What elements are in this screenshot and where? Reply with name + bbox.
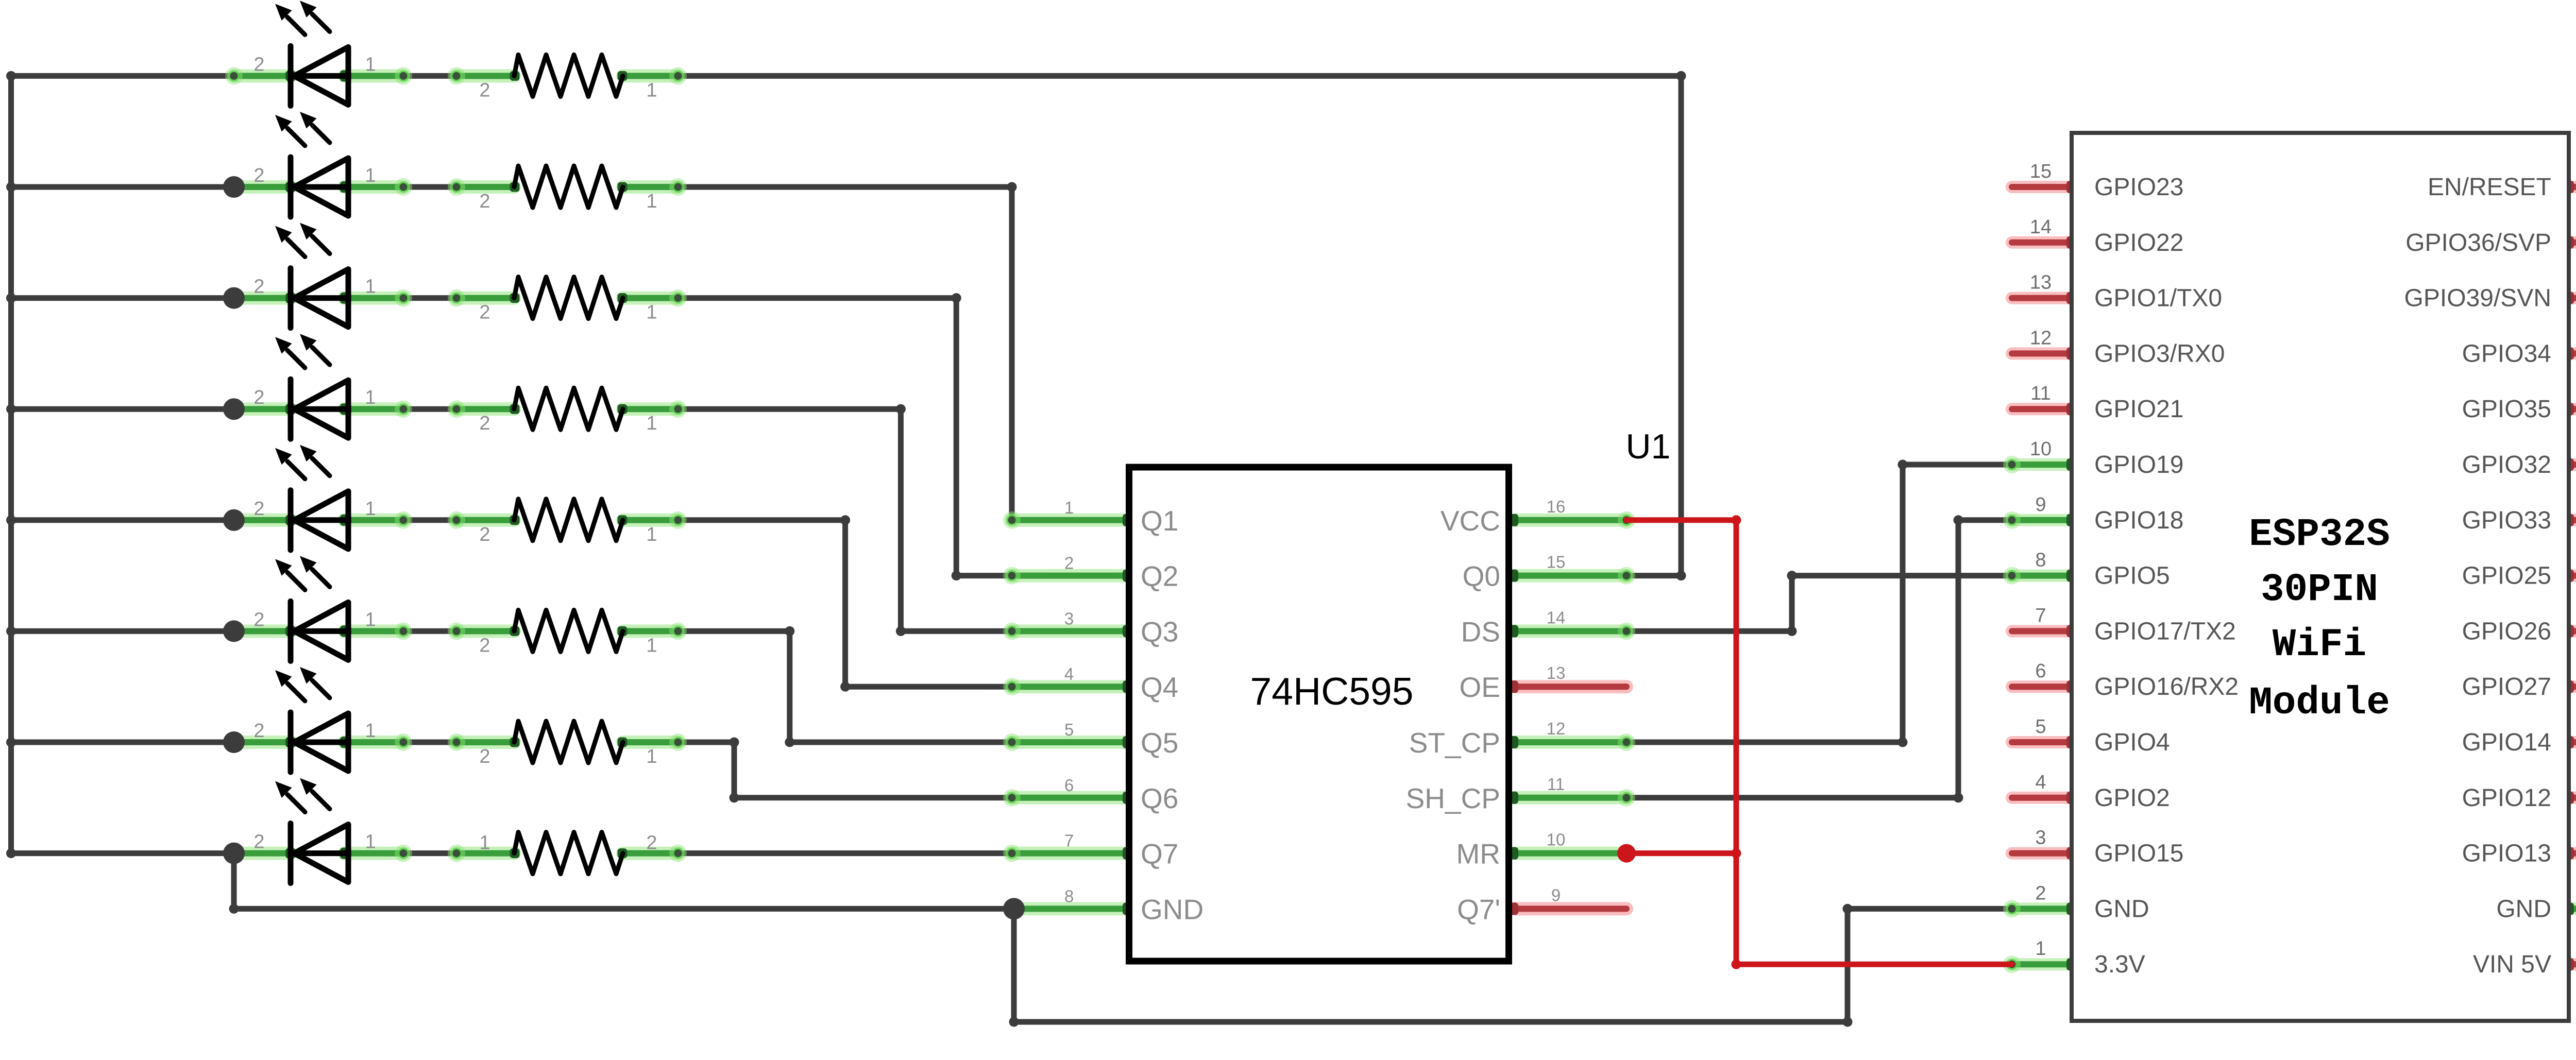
U1 right pin lead Q7' (unconnected, red): [1515, 902, 1626, 915]
U1 pin label Q4 (pin 4): [1064, 664, 1179, 703]
resistor R6 pin labels: [479, 635, 657, 656]
ESP32 pin label GPIO35 (pin 20): [2462, 383, 2576, 423]
svg-text:7: 7: [2035, 605, 2046, 626]
svg-text:16: 16: [1547, 497, 1566, 516]
svg-text:2: 2: [253, 165, 264, 186]
svg-text:2: 2: [253, 498, 264, 520]
U1 right pin lead SH_CP: [1515, 791, 1626, 805]
resistor R2 pin 2 lead: [456, 180, 514, 194]
svg-text:2: 2: [479, 191, 490, 212]
svg-text:6: 6: [2035, 660, 2046, 682]
U1 pin label Q5 (pin 5): [1064, 720, 1179, 759]
LED D6 pin 2 lead (green highlighted): [234, 624, 291, 638]
resistor R6 pin 2 lead: [456, 624, 514, 638]
resistor R3 pin 2 lead: [456, 292, 514, 305]
LED D3: [275, 223, 348, 328]
U1 right pin lead Q0: [1515, 569, 1626, 583]
svg-text:Q7: Q7: [1141, 838, 1178, 870]
svg-text:8: 8: [1064, 886, 1074, 905]
ESP32 left pin stub GPIO18 (connected): [2012, 514, 2072, 526]
svg-text:GPIO19: GPIO19: [2094, 451, 2183, 478]
wire: LED D8 pin 1 to resistor R8 pin 2: [403, 850, 456, 856]
wire: VCC red from U1 VCC to vertical: [1626, 517, 1736, 523]
ESP32 pin label GPIO22 (pin 14): [2030, 216, 2184, 257]
svg-text:15: 15: [1547, 553, 1566, 572]
svg-text:2: 2: [479, 302, 490, 323]
ESP32 right pin stub GPIO33 (unconnected, red): [2569, 514, 2576, 526]
resistor R3 pin 1 lead: [623, 292, 678, 305]
ESP32 pin label GND (pin 2): [2035, 882, 2149, 922]
LED D4: [275, 334, 348, 439]
wire: bus to LED D7 pin 2: [11, 740, 234, 745]
U1 left pin lead Q7: [1012, 847, 1126, 860]
LED D1 pin 1 lead (green highlighted): [344, 69, 403, 82]
svg-text:1: 1: [365, 498, 376, 520]
terminal points (green rings): [225, 67, 2576, 973]
ESP32 right pin stub GPIO13 (unconnected, red): [2569, 847, 2576, 860]
svg-text:1: 1: [646, 746, 657, 767]
ESP32 pin label GPIO21 (pin 11): [2030, 383, 2183, 423]
LED D7: [275, 667, 348, 772]
U1 right pin lead VCC: [1515, 514, 1626, 527]
ESP32 pin label GPIO32 (pin 21): [2462, 438, 2576, 478]
svg-text:11: 11: [1547, 775, 1565, 794]
svg-text:VCC: VCC: [1440, 505, 1500, 537]
ESP32 pin label GPIO25 (pin 23): [2462, 550, 2576, 590]
svg-text:6: 6: [1064, 776, 1074, 795]
svg-text:1: 1: [646, 191, 657, 212]
ESP32 left pin stub GPIO22 (unconnected, red): [2012, 236, 2072, 249]
junction dot: LED D2..D8 cathode junctions: [223, 176, 245, 864]
ESP32 left pin stub GPIO15 (unconnected, red): [2012, 847, 2072, 860]
resistor R5 pin 2 lead: [456, 514, 514, 527]
LED D4 pin 1 lead (green highlighted): [344, 402, 403, 416]
svg-text:30PIN: 30PIN: [2261, 568, 2378, 612]
svg-text:GPIO34: GPIO34: [2462, 340, 2551, 367]
U1 left pin lead Q2: [1012, 569, 1126, 583]
svg-text:1: 1: [2035, 938, 2046, 960]
svg-text:ST_CP: ST_CP: [1409, 727, 1500, 759]
svg-text:2: 2: [253, 276, 264, 298]
svg-text:1: 1: [365, 720, 376, 742]
svg-text:2: 2: [1064, 554, 1074, 573]
wire: bus to LED D5 pin 2: [11, 517, 234, 523]
ESP32 right pin stub EN/RESET (unconnected, red): [2569, 181, 2576, 193]
ESP32 pin label GND (pin 29): [2496, 882, 2576, 922]
wire: bus to LED D2 pin 2: [11, 184, 234, 190]
resistor R1 pin labels: [479, 79, 657, 101]
resistor R8 pin 1 lead: [623, 847, 678, 860]
resistor R4: [514, 388, 623, 430]
ESP32 pin label GPIO12 (pin 27): [2462, 772, 2576, 812]
resistor R7: [514, 721, 623, 763]
svg-text:Q4: Q4: [1141, 671, 1178, 703]
wire: LED D4 pin 1 to resistor R4 pin 2: [403, 406, 456, 412]
wire: LED D3 pin 1 to resistor R3 pin 2: [403, 295, 456, 301]
ESP32 left pin stub GPIO4 (unconnected, red): [2012, 736, 2072, 748]
resistor R4 pin 1 lead: [623, 402, 678, 416]
wire: GND net, to ESP32 GND pin 2: [1848, 906, 2012, 912]
resistor R3 pin labels: [479, 302, 657, 323]
ESP32 right pin stub GPIO39/SVN (unconnected, red): [2569, 292, 2576, 304]
svg-text:11: 11: [2030, 383, 2050, 404]
LED D8 pin 1 lead (green highlighted): [344, 847, 403, 860]
ESP32 pin label GPIO26 (pin 24): [2462, 605, 2576, 645]
ESP32 right pin stub GPIO25 (unconnected, red): [2569, 570, 2576, 582]
svg-text:GND: GND: [1141, 893, 1204, 925]
ESP32 pin label EN/RESET (pin 16): [2428, 161, 2576, 201]
svg-text:2: 2: [646, 832, 657, 854]
U1 pin label Q3 (pin 3): [1064, 609, 1179, 647]
U1 pin label Q7' (pin 9): [1457, 885, 1561, 925]
svg-text:GPIO22: GPIO22: [2094, 229, 2183, 257]
U1 left pin lead Q4: [1012, 680, 1126, 693]
U1 right pin lead ST_CP: [1515, 736, 1626, 749]
ESP32 left pin stub GPIO3/RX0 (unconnected, red): [2012, 347, 2072, 360]
wire: red vertical VCC to 3.3V: [1734, 520, 1739, 964]
svg-text:3: 3: [2035, 827, 2046, 849]
U1 pin label Q6 (pin 6): [1064, 776, 1179, 814]
svg-text:12: 12: [2030, 327, 2052, 349]
wire: R2 to U1 Q1: [678, 184, 1012, 190]
svg-text:GPIO12: GPIO12: [2462, 784, 2551, 812]
resistor R1 pin 2 lead: [456, 69, 514, 82]
ESP32 pin label GPIO23 (pin 15): [2030, 161, 2184, 201]
svg-text:Q0: Q0: [1463, 560, 1500, 592]
wire: LED D2 pin 1 to resistor R2 pin 2: [403, 184, 456, 190]
LED D1 pin labels: [253, 54, 376, 75]
svg-text:4: 4: [1064, 664, 1074, 683]
svg-text:GND: GND: [2496, 895, 2551, 922]
ESP32 pin label GPIO2 (pin 4): [2035, 772, 2170, 812]
LED D5 pin 2 lead (green highlighted): [234, 514, 291, 527]
svg-text:GPIO21: GPIO21: [2094, 396, 2183, 423]
svg-text:GPIO13: GPIO13: [2462, 840, 2551, 867]
svg-text:GPIO1/TX0: GPIO1/TX0: [2094, 285, 2222, 312]
svg-text:12: 12: [1547, 719, 1566, 738]
resistor R8 pin 2 lead: [456, 847, 514, 860]
svg-text:MR: MR: [1456, 838, 1500, 870]
svg-text:1: 1: [646, 413, 657, 434]
LED D2: [275, 112, 348, 217]
resistor R4 pin 2 lead: [456, 402, 514, 416]
LED D7 pin 2 lead (green highlighted): [234, 736, 291, 749]
U1 left pin lead Q6: [1012, 791, 1126, 805]
resistor R1: [514, 55, 623, 96]
LED D4 pin 2 lead (green highlighted): [234, 402, 291, 416]
wire: R7 to U1 Q6: [678, 740, 734, 745]
svg-text:Q3: Q3: [1141, 616, 1178, 647]
ESP32 pin label GPIO5 (pin 8): [2035, 550, 2170, 590]
ESP32 right pin stub GPIO32 (unconnected, red): [2569, 458, 2576, 471]
wire: U1 SH_CP to ESP32 GPIO18: [1626, 795, 1958, 800]
wire: R4 to U1 Q3: [678, 406, 901, 412]
LED D5: [275, 445, 348, 550]
ESP32 right pin stub GPIO26 (unconnected, red): [2569, 625, 2576, 637]
ESP32 left pin stub GPIO23 (unconnected, red): [2012, 181, 2072, 193]
LED D3 pin labels: [253, 276, 376, 298]
svg-text:SH_CP: SH_CP: [1406, 782, 1500, 814]
svg-text:1: 1: [365, 165, 376, 186]
ESP32 pin label GPIO18 (pin 9): [2035, 494, 2183, 534]
svg-text:2: 2: [479, 79, 490, 101]
ESP32 left pin stub GPIO16/RX2 (unconnected, red): [2012, 680, 2072, 693]
ESP32 left pin stub GPIO17/TX2 (unconnected, red): [2012, 625, 2072, 637]
ESP32 pin label GPIO19 (pin 10): [2030, 438, 2184, 478]
svg-text:2: 2: [479, 413, 490, 434]
LED D3 pin 2 lead (green highlighted): [234, 292, 291, 305]
resistor R7 pin 2 lead: [456, 736, 514, 749]
wire: LED D7 pin 1 to resistor R7 pin 2: [403, 740, 456, 745]
svg-text:1: 1: [646, 79, 657, 101]
resistor R5: [514, 499, 623, 541]
LED D2 pin 1 lead (green highlighted): [344, 180, 403, 194]
LED D5 pin 1 lead (green highlighted): [344, 514, 403, 527]
U1 pin label VCC (pin 16): [1440, 497, 1565, 537]
op-amp U1 74HC595 IC body: [1129, 467, 1509, 961]
U1 pin label ST_CP (pin 12): [1409, 719, 1566, 759]
ESP32 left pin stub GPIO1/TX0 (unconnected, red): [2012, 292, 2072, 304]
resistor R5 pin labels: [479, 524, 657, 545]
resistor R6: [514, 610, 623, 652]
wire: bus to LED D4 pin 2: [11, 406, 234, 412]
svg-text:2: 2: [253, 54, 264, 75]
svg-text:14: 14: [2030, 216, 2052, 238]
ESP32 pin label GPIO15 (pin 3): [2035, 827, 2183, 867]
U1 pin label Q2 (pin 2): [1064, 554, 1179, 592]
svg-text:GPIO26: GPIO26: [2462, 618, 2551, 645]
svg-text:GPIO25: GPIO25: [2462, 562, 2551, 590]
svg-text:GPIO23: GPIO23: [2094, 174, 2183, 201]
ESP32 pin label GPIO4 (pin 5): [2035, 716, 2170, 756]
svg-text:Module: Module: [2249, 681, 2390, 725]
LED D4 pin labels: [253, 387, 376, 408]
LED D5 pin labels: [253, 498, 376, 520]
U1 pin label OE (pin 13): [1460, 663, 1566, 703]
wire: R5 to U1 Q4: [678, 517, 845, 523]
U1 pin label MR (pin 10): [1456, 830, 1565, 870]
U1 pin label GND (pin 8): [1064, 886, 1204, 925]
svg-text:GPIO16/RX2: GPIO16/RX2: [2094, 673, 2239, 700]
LED D2 pin 2 lead (green highlighted): [234, 180, 291, 194]
svg-text:5: 5: [2035, 716, 2046, 738]
svg-text:GPIO4: GPIO4: [2094, 729, 2170, 756]
LED D7 pin 1 lead (green highlighted): [344, 736, 403, 749]
resistor R2 pin 1 lead: [623, 180, 678, 194]
ESP32 pin label GPIO14 (pin 26): [2462, 716, 2576, 756]
pin dark-green caps at component bodies: [285, 70, 2574, 970]
svg-text:9: 9: [1551, 885, 1561, 904]
svg-text:1: 1: [365, 276, 376, 298]
svg-text:DS: DS: [1461, 616, 1500, 647]
svg-text:Q7': Q7': [1457, 893, 1500, 925]
wire: bus to LED D1 pin 2: [11, 73, 234, 79]
svg-text:3: 3: [1064, 609, 1074, 628]
wire: LED D5 pin 1 to resistor R5 pin 2: [403, 517, 456, 523]
svg-text:2: 2: [253, 831, 264, 853]
svg-text:Q1: Q1: [1141, 505, 1178, 537]
svg-text:1: 1: [1064, 498, 1074, 517]
wire: R1 to U1 Q0 (top run, down at right): [678, 73, 1681, 79]
resistor R2 pin labels: [479, 191, 657, 212]
resistor R6 pin 1 lead: [623, 624, 678, 638]
resistor R1 pin 1 lead: [623, 69, 678, 82]
wire bendpoint dots: [229, 71, 1963, 1027]
U1 right pin lead OE (unconnected, red): [1515, 680, 1626, 693]
ESP32 right pin stub GPIO14 (unconnected, red): [2569, 736, 2576, 748]
svg-text:2: 2: [2035, 882, 2046, 904]
svg-text:GPIO18: GPIO18: [2094, 507, 2183, 534]
LED D6 pin labels: [253, 609, 376, 630]
ESP32 module title: [2249, 512, 2390, 725]
ESP32 pin label VIN 5V (pin 30): [2473, 938, 2576, 978]
svg-text:Q5: Q5: [1141, 727, 1178, 759]
ESP32 left pin stub GPIO19 (connected): [2012, 458, 2072, 471]
svg-text:GPIO15: GPIO15: [2094, 840, 2183, 867]
svg-text:VIN 5V: VIN 5V: [2473, 951, 2551, 978]
ESP32 pin label GPIO34 (pin 19): [2462, 327, 2576, 367]
svg-text:5: 5: [1064, 720, 1074, 739]
U1 left pin lead Q5: [1012, 736, 1126, 749]
svg-text:Q6: Q6: [1141, 782, 1178, 814]
wire: LED D6 pin 1 to resistor R6 pin 2: [403, 628, 456, 634]
resistor R8: [514, 832, 623, 874]
ESP32 pin label GPIO17/TX2 (pin 7): [2035, 605, 2235, 645]
svg-text:EN/RESET: EN/RESET: [2428, 174, 2551, 201]
ESP32 right pin stub GPIO34 (unconnected, red): [2569, 347, 2576, 360]
U1 pin label Q1 (pin 1): [1064, 498, 1179, 537]
svg-text:2: 2: [253, 720, 264, 742]
svg-text:1: 1: [365, 387, 376, 408]
svg-text:9: 9: [2035, 494, 2046, 516]
svg-text:1: 1: [365, 609, 376, 630]
svg-text:U1: U1: [1626, 427, 1671, 466]
svg-text:GPIO5: GPIO5: [2094, 562, 2170, 590]
ESP32 left pin stub GPIO21 (unconnected, red): [2012, 403, 2072, 415]
svg-text:3.3V: 3.3V: [2094, 951, 2145, 978]
svg-text:GPIO27: GPIO27: [2462, 673, 2551, 700]
LED D1 pin 2 lead (green highlighted): [234, 69, 291, 82]
svg-text:1: 1: [646, 524, 657, 545]
ESP32 right pin stub GPIO27 (unconnected, red): [2569, 680, 2576, 693]
svg-text:1: 1: [365, 831, 376, 853]
ESP32 pin label GPIO33 (pin 22): [2462, 494, 2576, 534]
svg-text:GPIO14: GPIO14: [2462, 729, 2551, 756]
resistor R5 pin 1 lead: [623, 514, 678, 527]
wire: R3 to U1 Q2: [678, 295, 956, 301]
svg-text:2: 2: [479, 635, 490, 656]
svg-text:14: 14: [1547, 608, 1566, 627]
resistor R7 pin 1 lead: [623, 736, 678, 749]
svg-text:1: 1: [479, 832, 490, 854]
wire: red to ESP32 3.3V pin: [1736, 962, 2012, 967]
U1 right pin lead DS: [1515, 624, 1626, 638]
ESP32 left pin stub GND (connected): [2012, 902, 2072, 915]
svg-text:1: 1: [646, 635, 657, 656]
U1 pin label DS (pin 14): [1461, 608, 1566, 647]
ESP32 right pin stub GPIO12 (unconnected, red): [2569, 792, 2576, 804]
ESP32 left pin stub 3.3V (connected): [2012, 958, 2072, 970]
LED D3 pin 1 lead (green highlighted): [344, 292, 403, 305]
junction dot: MR red junction: [1617, 844, 1636, 863]
svg-text:2: 2: [253, 609, 264, 630]
wire: left cathode bus vertical: [8, 76, 14, 853]
red bendpoint dots: [1732, 515, 1741, 969]
ESP32 pin label GPIO36/SVP (pin 17): [2405, 216, 2576, 257]
svg-text:10: 10: [2030, 438, 2052, 460]
svg-text:OE: OE: [1460, 671, 1500, 703]
U1 right pin lead MR: [1515, 847, 1626, 860]
resistor R3: [514, 277, 623, 319]
ESP32 left pin stub GPIO2 (unconnected, red): [2012, 792, 2072, 804]
LED D8 pin 2 lead (green highlighted): [234, 847, 291, 860]
svg-text:ESP32S: ESP32S: [2249, 512, 2390, 557]
LED D6 pin 1 lead (green highlighted): [344, 624, 403, 638]
svg-text:1: 1: [365, 54, 376, 75]
svg-text:GND: GND: [2094, 895, 2149, 922]
LED D6: [275, 556, 348, 661]
ESP32 pin label GPIO27 (pin 25): [2462, 660, 2576, 700]
wire: bus to LED D3 pin 2: [11, 295, 234, 301]
wire: GND net, LED D8 junction down to GND row: [231, 853, 237, 909]
svg-text:2: 2: [479, 746, 490, 767]
svg-text:GPIO36/SVP: GPIO36/SVP: [2405, 229, 2551, 257]
LED D2 pin labels: [253, 165, 376, 186]
U1 left pin lead Q3: [1012, 624, 1126, 638]
svg-text:2: 2: [479, 524, 490, 545]
LED D1: [275, 1, 348, 106]
LED D8: [275, 778, 348, 883]
svg-text:WiFi: WiFi: [2273, 623, 2366, 667]
svg-text:Q2: Q2: [1141, 560, 1178, 592]
svg-text:2: 2: [253, 387, 264, 408]
wire: bus to LED D6 pin 2: [11, 628, 234, 634]
wire: GND net, up to ESP32 GND row: [1845, 909, 1851, 1022]
U1 left pin lead Q1: [1012, 514, 1126, 527]
svg-text:7: 7: [1064, 831, 1074, 850]
LED D8 pin labels: [253, 831, 376, 853]
svg-text:GPIO32: GPIO32: [2462, 451, 2551, 478]
ESP32 pin label GPIO16/RX2 (pin 6): [2035, 660, 2239, 700]
ESP32 pin label 3.3V (pin 1): [2035, 938, 2145, 978]
svg-text:13: 13: [2030, 272, 2052, 294]
svg-text:1: 1: [646, 302, 657, 323]
wire: GND net, bottom horizontal run: [1014, 1019, 1848, 1025]
ESP32 pin label GPIO39/SVN (pin 18): [2404, 272, 2576, 312]
svg-text:4: 4: [2035, 772, 2046, 793]
wire: GND net, down from U1 GND junction: [1011, 909, 1017, 1022]
svg-text:10: 10: [1547, 830, 1566, 849]
LED D7 pin labels: [253, 720, 376, 742]
ESP32 pin label GPIO13 (pin 28): [2462, 827, 2576, 867]
svg-text:GPIO3/RX0: GPIO3/RX0: [2094, 340, 2225, 367]
svg-text:GPIO33: GPIO33: [2462, 507, 2551, 534]
svg-text:15: 15: [2030, 161, 2052, 182]
ESP32 pin label GPIO1/TX0 (pin 13): [2030, 272, 2222, 312]
wire: LED D1 pin 1 to resistor R1 pin 2: [403, 73, 456, 79]
wire: R6 to U1 Q5: [678, 628, 790, 634]
resistor R4 pin labels: [479, 413, 657, 434]
wire: red from U1 MR to vertical: [1626, 850, 1736, 856]
svg-text:GPIO2: GPIO2: [2094, 784, 2170, 812]
wire: bus to LED D8 pin 2: [11, 850, 234, 856]
junction dot: U1 GND junction: [1003, 898, 1025, 919]
wire: U1 ST_CP to ESP32 GPIO19: [1626, 740, 1903, 745]
resistor R2: [514, 166, 623, 208]
ESP32 left pin stub GPIO5 (connected): [2012, 570, 2072, 582]
wire: U1 DS to ESP32 GPIO5: [1626, 628, 1792, 634]
ESP32 pin label GPIO3/RX0 (pin 12): [2030, 327, 2225, 367]
